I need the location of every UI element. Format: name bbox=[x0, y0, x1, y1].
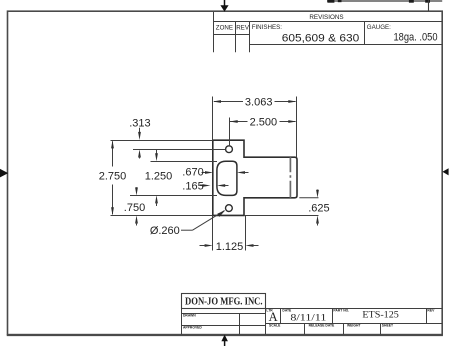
dimension 1.250 bbox=[155, 150, 158, 206]
svg-text:ETS-125: ETS-125 bbox=[362, 310, 399, 321]
svg-text:.625: .625 bbox=[308, 203, 329, 215]
screw hole bottom bbox=[226, 205, 233, 212]
bend line dash-dot bbox=[289, 157, 291, 198]
svg-text:.670: .670 bbox=[182, 167, 203, 179]
svg-text:DON-JO MFG. INC.: DON-JO MFG. INC. bbox=[185, 297, 263, 308]
svg-text:REV: REV bbox=[236, 25, 250, 32]
extension lines bbox=[111, 97, 319, 251]
svg-text:WEIGHT: WEIGHT bbox=[347, 324, 361, 328]
svg-text:ZONE: ZONE bbox=[216, 25, 233, 32]
svg-text:.165: .165 bbox=[182, 181, 203, 193]
screw hole top bbox=[226, 146, 233, 153]
svg-text:LTR: LTR bbox=[266, 308, 273, 312]
svg-text:.750: .750 bbox=[124, 202, 145, 214]
dimension .750 bbox=[135, 187, 138, 225]
revisions table text bbox=[216, 14, 438, 44]
svg-text:PART NO.: PART NO. bbox=[333, 308, 349, 312]
bottom centering arrow bbox=[221, 335, 228, 346]
dimension .165 bbox=[200, 184, 229, 187]
part outline bbox=[213, 140, 297, 215]
svg-text:DRAWN: DRAWN bbox=[183, 313, 196, 317]
svg-text:8/11/11: 8/11/11 bbox=[290, 312, 327, 322]
dimension 1.125 bbox=[200, 244, 259, 247]
svg-text:2.500: 2.500 bbox=[250, 117, 278, 129]
svg-text:18ga. .050: 18ga. .050 bbox=[394, 31, 438, 43]
title block: company box bbox=[182, 294, 266, 309]
svg-text:605,609 & 630: 605,609 & 630 bbox=[282, 32, 360, 44]
svg-text:1.250: 1.250 bbox=[145, 170, 173, 182]
svg-text:2.750: 2.750 bbox=[99, 170, 127, 182]
dimension .313 bbox=[138, 128, 141, 159]
svg-text:REV: REV bbox=[427, 308, 435, 312]
top centering arrow bbox=[220, 0, 228, 12]
dimension 3.063 bbox=[213, 100, 297, 103]
svg-text:APPROVED: APPROVED bbox=[183, 326, 202, 330]
left centering arrow bbox=[0, 169, 8, 178]
svg-text:.313: .313 bbox=[129, 118, 150, 130]
title block tiny labels bbox=[183, 308, 435, 329]
svg-text:GAUGE:: GAUGE: bbox=[367, 24, 391, 31]
svg-text:Ø.260: Ø.260 bbox=[150, 225, 180, 237]
title block values bbox=[269, 310, 399, 325]
svg-text:3.063: 3.063 bbox=[245, 97, 273, 109]
title block grid bbox=[182, 294, 443, 335]
dimension 2.750 bbox=[111, 140, 114, 215]
svg-text:REVISIONS: REVISIONS bbox=[309, 14, 343, 21]
leader diameter .260 bbox=[181, 210, 225, 230]
svg-text:DATE: DATE bbox=[282, 308, 292, 312]
svg-text:1.125: 1.125 bbox=[216, 241, 244, 253]
dimension .670 bbox=[202, 171, 249, 174]
svg-text:FINISHES:: FINISHES: bbox=[252, 24, 283, 31]
revisions table bbox=[214, 12, 443, 52]
dimension .625 bbox=[316, 190, 319, 226]
dimension 2.500 bbox=[230, 120, 297, 123]
svg-text:SHEET: SHEET bbox=[382, 324, 394, 328]
svg-text:RELEASE DATE: RELEASE DATE bbox=[309, 324, 335, 328]
latch slot bbox=[217, 161, 237, 195]
right centering arrow bbox=[442, 168, 448, 175]
cropped table above top border bbox=[327, 0, 442, 11]
svg-text:SCALE: SCALE bbox=[269, 324, 281, 328]
